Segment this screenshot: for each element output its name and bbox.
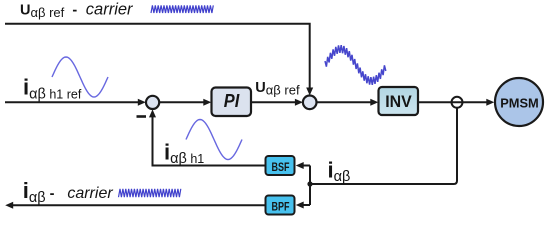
modulated carrier wave [325,45,386,85]
sine wave i_ab h1 ref [52,57,108,97]
arrowhead into summing junction 2 (down) [306,88,313,96]
svg-text:BPF: BPF [272,200,290,214]
svg-text:PI: PI [224,90,240,111]
arrowhead into PMSM [486,99,494,106]
carrier zigzag top [151,5,213,13]
wire BPF output to the left with arrow [10,204,266,206]
arrowhead into summing junction 1 (up) [149,109,156,117]
arrowhead into BPF (left) [296,202,304,209]
summing junction 2 [303,96,317,110]
wire summing junction 1 to PI [160,101,207,103]
block BPF [266,196,295,215]
svg-text:BSF: BSF [272,160,290,174]
arrowhead into INV [370,99,378,106]
wire PI to summing junction 2 [251,101,299,103]
svg-text:Uαβ ref: Uαβ ref [255,80,300,98]
wire node down and left to filters [310,108,457,184]
wire top U_ab ref - carrier into summing junction 2 [5,24,310,92]
wire INV to PMSM [418,101,490,103]
arrowhead into summing junction 2 (right) [295,99,303,106]
sine wave i_ab h1 [186,120,242,160]
minus sign [137,115,147,118]
arrowhead into PI [203,99,211,106]
junction dot [307,181,312,186]
carrier zigzag bottom [119,189,181,197]
arrowhead into summing junction 1 (right) [138,99,146,106]
block PI [212,88,252,117]
svg-text:PMSM: PMSM [500,96,539,111]
wire summing junction 2 to INV [317,101,374,103]
node circle after INV [452,97,463,108]
wire input into summing junction 1 [5,101,141,103]
block BSF [266,156,295,175]
motor PMSM [495,78,543,126]
wire vertical split to BSF and BPF [309,166,311,206]
wire BSF output to summing junction 1 [153,114,266,166]
block INV [379,87,419,115]
wire to BSF [300,165,310,167]
arrowhead output left [5,202,13,209]
arrowhead into BSF (left) [296,162,304,169]
summing junction 1 [146,96,159,109]
svg-text:INV: INV [385,93,412,111]
wire to BPF [300,204,310,206]
